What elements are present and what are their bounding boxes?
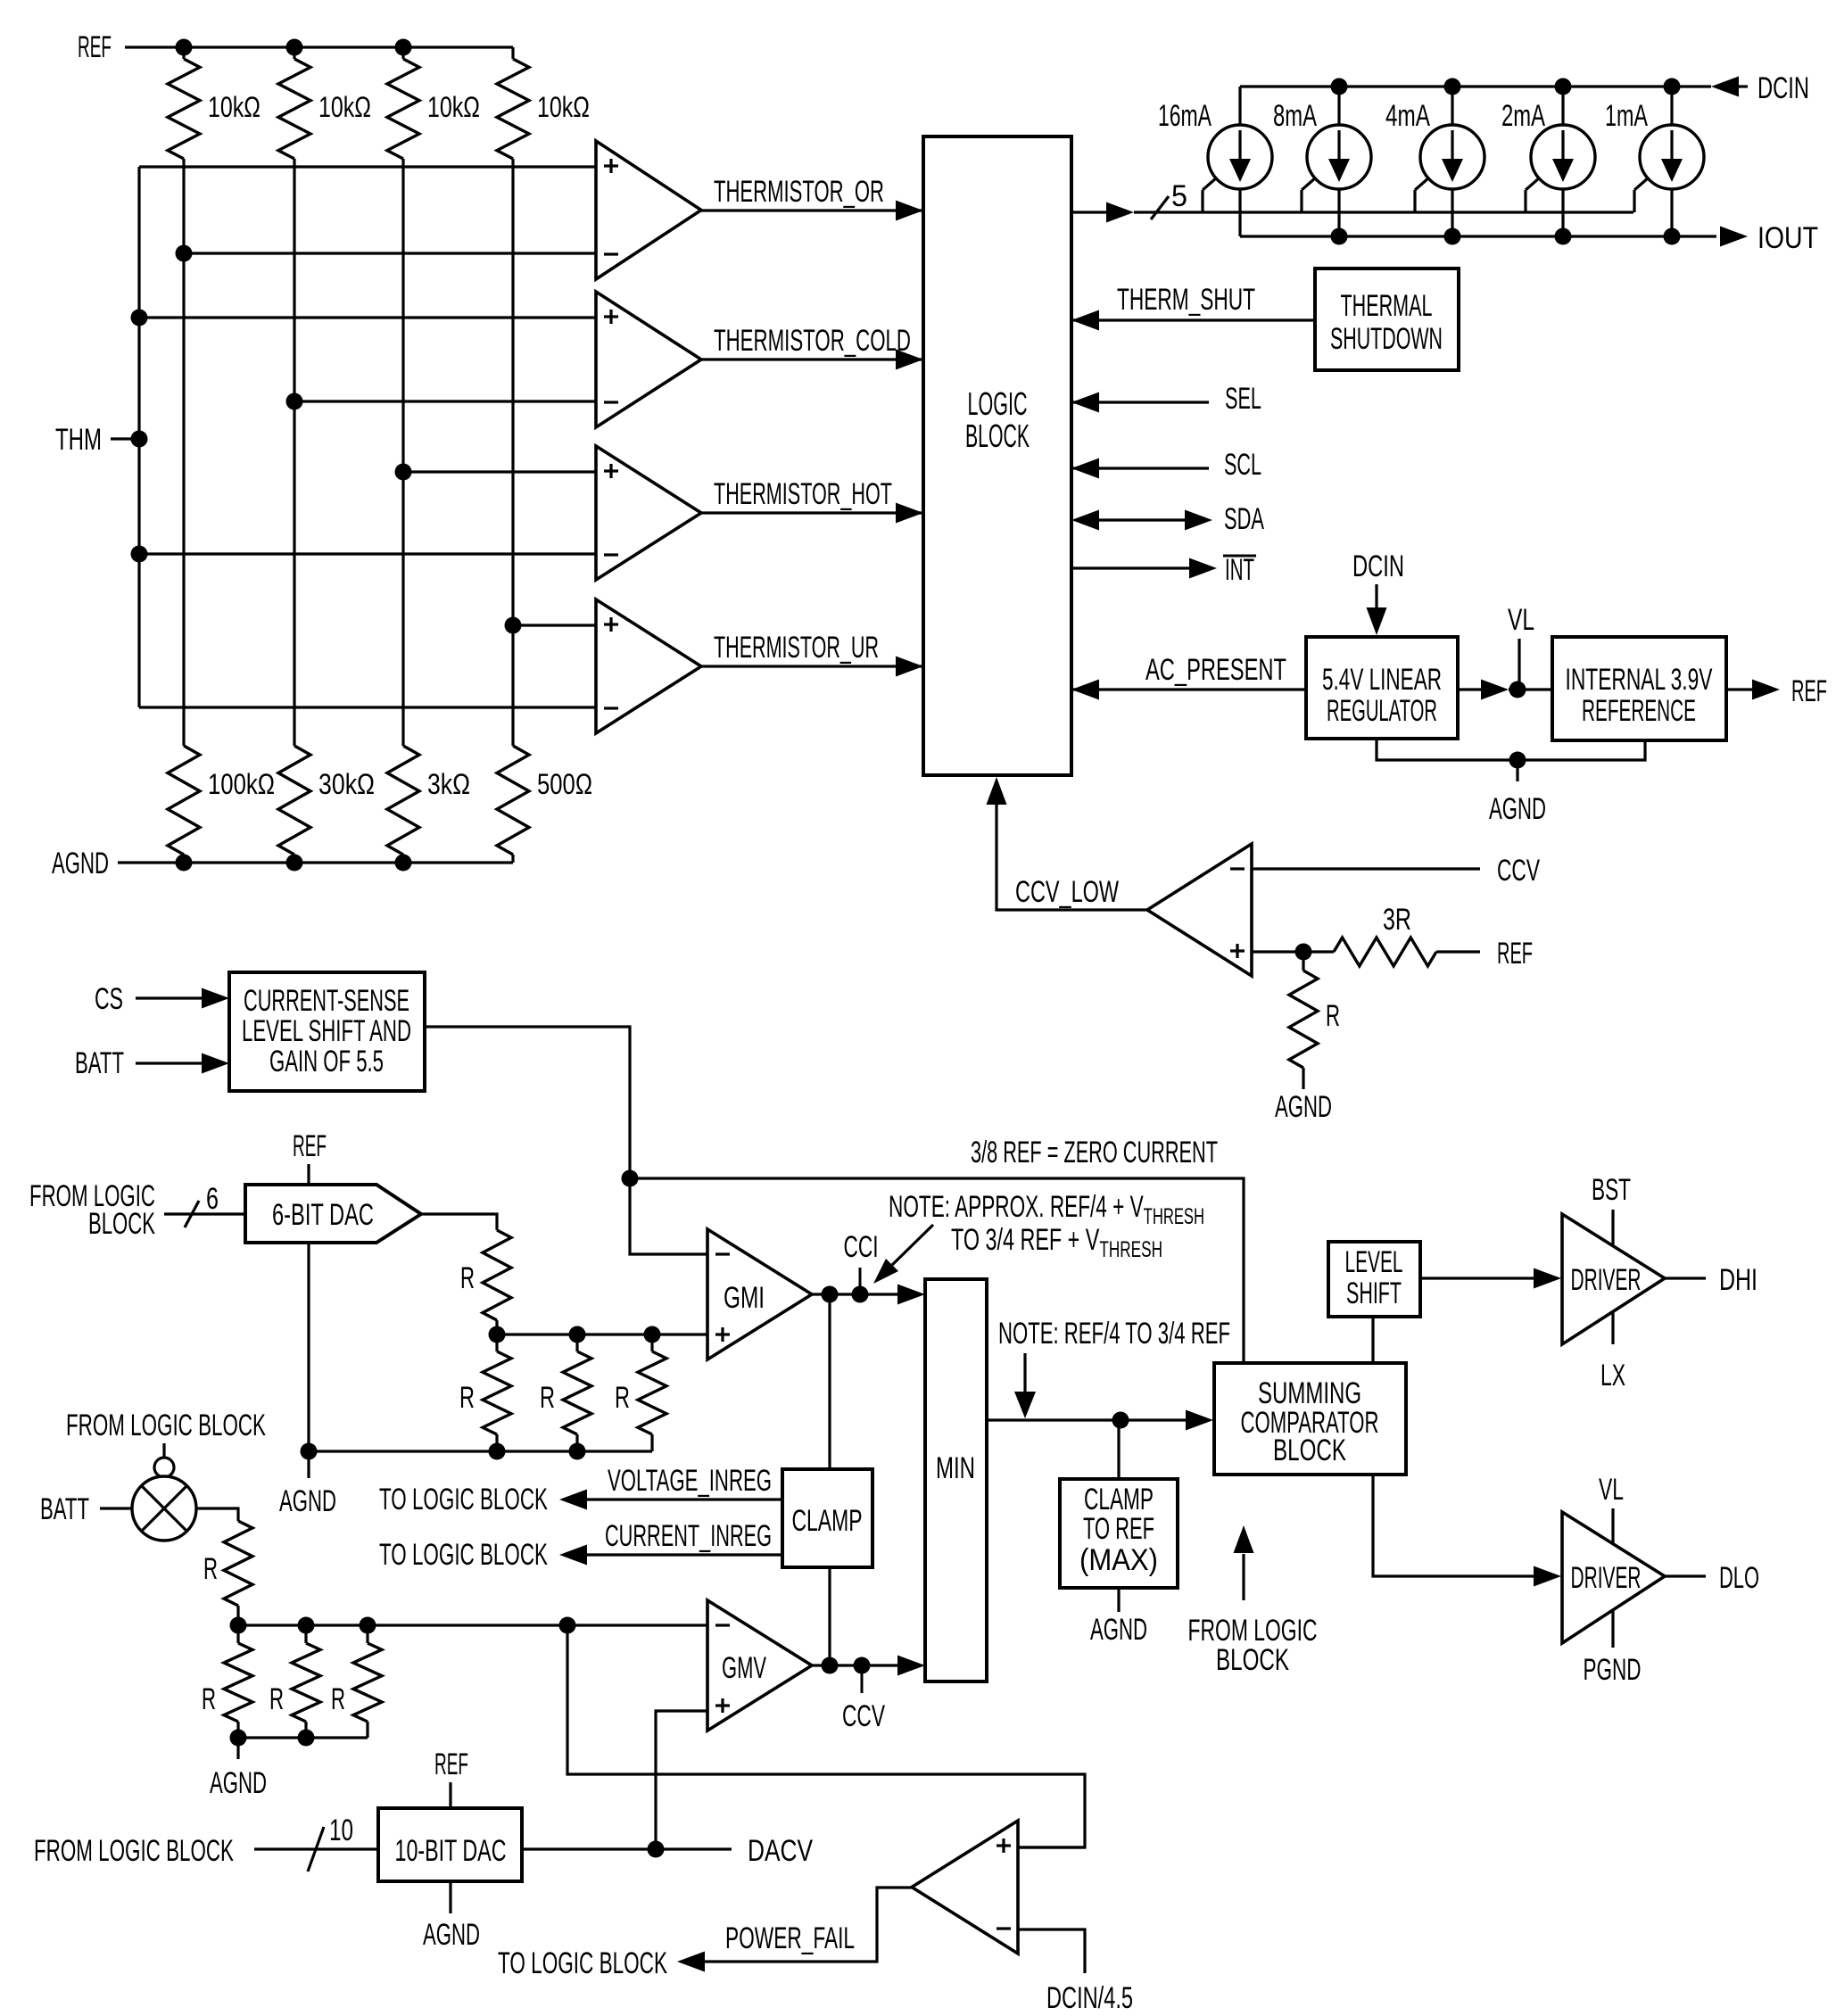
svg-text:VOLTAGE_INREG: VOLTAGE_INREG — [608, 1464, 772, 1498]
node CCI with tick label — [844, 1230, 879, 1287]
svg-text:3R: 3R — [1383, 903, 1411, 937]
svg-text:SHUTDOWN: SHUTDOWN — [1330, 322, 1443, 356]
wire column 2 vertical — [286, 163, 303, 742]
svg-text:REFERENCE: REFERENCE — [1582, 694, 1696, 728]
wire DACV node with label — [522, 1834, 813, 1868]
wire comp1 - row — [184, 252, 596, 254]
wire column 3 vertical — [395, 163, 412, 742]
svg-text:30kΩ: 30kΩ — [318, 768, 375, 800]
svg-text:REF: REF — [78, 30, 112, 64]
svg-text:DRIVER: DRIVER — [1571, 1561, 1642, 1595]
wire CCV_LOW output to logic block with up arrow and label — [987, 777, 1148, 910]
svg-text:10-BIT DAC: 10-BIT DAC — [395, 1834, 507, 1868]
wire comp3 + row — [403, 470, 596, 473]
svg-text:CCV: CCV — [1497, 854, 1540, 888]
terminal DCIN with arrow — [1711, 71, 1809, 105]
node AGND (clamp max) — [1090, 1613, 1147, 1647]
svg-text:3kΩ: 3kΩ — [427, 768, 470, 800]
svg-text:REF: REF — [293, 1129, 327, 1163]
svg-text:DHI: DHI — [1719, 1263, 1757, 1297]
wire FROM LOGIC BLOCK input with bus slash 6 — [29, 1179, 245, 1241]
svg-text:VL: VL — [1599, 1473, 1624, 1507]
wire MIN output to summing comparator — [987, 1410, 1213, 1431]
current source 1mA with switch — [1605, 87, 1704, 236]
current source 16mA with switch — [1158, 87, 1272, 236]
svg-text:R: R — [331, 1682, 345, 1716]
regulator block 5.4V — [1306, 637, 1458, 739]
svg-text:THERM_SHUT: THERM_SHUT — [1117, 283, 1255, 317]
svg-text:REF: REF — [1791, 674, 1827, 708]
note REF/4 to 3/4 REF with down arrow — [998, 1317, 1230, 1418]
svg-text:BLOCK: BLOCK — [1216, 1643, 1289, 1677]
wire AGND rail (GMV ladder) — [230, 1730, 368, 1747]
svg-text:DACV: DACV — [748, 1834, 813, 1868]
svg-text:10kΩ: 10kΩ — [537, 91, 590, 123]
wire GMV plus input to DACV node — [656, 1711, 707, 1849]
comparator U5 CCV_LOW — [1147, 844, 1252, 976]
svg-text:100kΩ: 100kΩ — [208, 768, 275, 800]
wire power-fail minus input to DCIN/4.5 — [1018, 1929, 1085, 1973]
svg-text:THERMISTOR_OR: THERMISTOR_OR — [714, 175, 884, 209]
node AGND (GMI ladder) — [279, 1484, 336, 1518]
wire REF output with label — [1726, 674, 1827, 708]
terminal BATT (GMV input) — [40, 1492, 132, 1526]
svg-text:LX: LX — [1600, 1359, 1625, 1392]
resistor R (GMV ladder 2) — [269, 1625, 320, 1738]
resistor 10k&#937; column 4 — [497, 47, 590, 163]
resistor 100kohm column 1 — [168, 742, 275, 863]
svg-text:CURRENT_INREG: CURRENT_INREG — [605, 1519, 772, 1553]
level shift block — [1328, 1242, 1420, 1317]
svg-text:THERMISTOR_COLD: THERMISTOR_COLD — [714, 324, 911, 358]
svg-text:POWER_FAIL: POWER_FAIL — [725, 1921, 855, 1955]
svg-text:R: R — [269, 1682, 284, 1716]
pin VL (driver 2) — [1599, 1473, 1624, 1543]
wire column 4 vertical — [505, 163, 522, 742]
svg-text:LOGIC: LOGIC — [968, 385, 1028, 422]
svg-text:R: R — [202, 1682, 216, 1716]
svg-text:4mA: 4mA — [1385, 99, 1430, 133]
pin BST — [1592, 1173, 1631, 1245]
wire DAC bottom to AGND rail — [307, 1243, 310, 1478]
wire DLO output with label — [1665, 1561, 1759, 1595]
wire comp2 - row — [294, 400, 596, 402]
node AGND (GMV ladder) — [210, 1766, 267, 1800]
wire regulator AGND net — [1377, 739, 1645, 781]
svg-text:5: 5 — [1171, 179, 1187, 213]
indicator lamp (BATT switch) — [132, 1458, 196, 1541]
svg-text:CS: CS — [95, 982, 123, 1016]
svg-text:AC_PRESENT: AC_PRESENT — [1145, 653, 1286, 687]
driver 2 (low side) — [1562, 1512, 1665, 1643]
pin LX — [1600, 1312, 1625, 1392]
wire GMV output to MIN with junction dots — [812, 1656, 925, 1676]
svg-text:6-BIT DAC: 6-BIT DAC — [272, 1198, 374, 1232]
resistor R (GMI ladder 3) — [615, 1334, 666, 1451]
svg-text:GAIN OF 5.5: GAIN OF 5.5 — [269, 1045, 384, 1078]
svg-text:LEVEL SHIFT AND: LEVEL SHIFT AND — [242, 1014, 411, 1048]
svg-text:DCIN/4.5: DCIN/4.5 — [1046, 1981, 1133, 2015]
svg-text:DCIN: DCIN — [1352, 549, 1404, 583]
current-sense block — [229, 972, 425, 1091]
resistor R (GMI ladder 1) — [459, 1334, 511, 1451]
svg-text:1mA: 1mA — [1605, 99, 1648, 133]
terminal DCIN into regulator — [1352, 549, 1404, 635]
resistor 500ohm column 4 — [497, 742, 592, 863]
resistor 30kohm column 2 — [278, 742, 375, 863]
wire THERMISTOR_OR with label — [701, 175, 923, 221]
svg-text:SEL: SEL — [1225, 382, 1261, 416]
svg-text:(MAX): (MAX) — [1079, 1543, 1158, 1577]
svg-text:NOTE: REF/4 TO 3/4 REF: NOTE: REF/4 TO 3/4 REF — [998, 1317, 1230, 1351]
wire comp1 + row — [139, 165, 596, 168]
MIN block — [925, 1279, 987, 1681]
svg-text:CCV_LOW: CCV_LOW — [1015, 875, 1119, 909]
svg-text:SCL: SCL — [1224, 448, 1261, 482]
svg-text:REF: REF — [1497, 937, 1533, 971]
resistor 10k&#937; column 3 — [387, 47, 480, 163]
svg-text:PGND: PGND — [1584, 1653, 1642, 1687]
svg-text:IOUT: IOUT — [1757, 221, 1818, 255]
wire comp3 - row — [139, 552, 596, 555]
wire comp4 - row — [139, 706, 596, 708]
op-amp GMV — [707, 1600, 812, 1731]
wire REF rail — [176, 39, 514, 56]
node AGND (CCV_LOW divider) — [1275, 1090, 1332, 1124]
terminal IOUT with arrow — [1720, 221, 1818, 255]
comparator U4 (thermistor underrange) — [596, 599, 701, 733]
wire THERMISTOR_COLD with label — [701, 324, 923, 370]
wire VOLTAGE_INREG to logic block with labels — [379, 1464, 782, 1516]
current source 4mA with switch — [1385, 87, 1485, 236]
wire level shift to summing comparator — [1371, 1317, 1374, 1363]
wire GMI plus rail — [489, 1326, 708, 1343]
node AGND (regulator) — [1489, 792, 1546, 826]
svg-text:TO REF: TO REF — [1083, 1512, 1154, 1546]
svg-text:10: 10 — [329, 1814, 353, 1847]
terminal BATT with arrow — [75, 1046, 229, 1080]
wire comp2 + row — [139, 316, 596, 318]
wire clamp top to CCI node — [828, 1294, 831, 1469]
resistor R (GMI ladder 2) — [540, 1334, 591, 1451]
wire GMI output to MIN with junction dots — [812, 1285, 925, 1305]
svg-text:500Ω: 500Ω — [537, 768, 592, 800]
resistor 3R with label — [1334, 903, 1436, 966]
svg-text:5.4V LINEAR: 5.4V LINEAR — [1322, 663, 1442, 697]
current source 8mA with switch — [1273, 87, 1371, 236]
svg-text:16mA: 16mA — [1158, 99, 1212, 133]
wire level shift output to driver — [1420, 1268, 1561, 1289]
svg-text:LEVEL: LEVEL — [1345, 1245, 1403, 1279]
node DCIN/4.5 — [1046, 1981, 1133, 2015]
resistor R (GMV ladder 3) — [331, 1625, 382, 1738]
svg-text:CLAMP: CLAMP — [792, 1504, 863, 1538]
comparator U3 (thermistor hot) — [596, 446, 701, 580]
svg-text:BST: BST — [1592, 1173, 1631, 1207]
wire clamp-max AGND — [1117, 1588, 1120, 1612]
svg-text:R: R — [460, 1261, 475, 1295]
svg-text:8mA: 8mA — [1273, 99, 1317, 133]
wire 3/8 REF to summing comparator with label — [630, 1136, 1244, 1363]
svg-text:THERMISTOR_HOT: THERMISTOR_HOT — [714, 477, 892, 511]
wire AGND rail (GMI ladder) — [301, 1443, 653, 1460]
wire SCL with label — [1071, 448, 1261, 482]
svg-text:TO LOGIC BLOCK: TO LOGIC BLOCK — [379, 1538, 548, 1572]
svg-text:MIN: MIN — [936, 1451, 975, 1485]
wire GMV minus rail — [230, 1617, 708, 1634]
svg-text:R: R — [540, 1381, 555, 1415]
wire SEL with label — [1071, 382, 1261, 416]
resistor R (GMV ladder 1) — [202, 1625, 252, 1738]
node THM — [55, 423, 139, 457]
svg-text:6: 6 — [206, 1182, 219, 1216]
svg-text:3/8 REF = ZERO CURRENT: 3/8 REF = ZERO CURRENT — [971, 1136, 1218, 1169]
node AGND (10-bit DAC) — [423, 1918, 480, 1952]
svg-text:BATT: BATT — [40, 1492, 89, 1526]
wire DHI output with label — [1665, 1263, 1757, 1297]
comparator U1 (thermistor overrange) — [596, 141, 701, 279]
svg-text:AGND: AGND — [1489, 792, 1546, 826]
svg-text:AGND: AGND — [279, 1484, 336, 1518]
reference block internal 3.9V — [1552, 637, 1726, 740]
svg-text:FROM LOGIC BLOCK: FROM LOGIC BLOCK — [66, 1409, 266, 1442]
10-bit DAC block — [378, 1808, 522, 1881]
svg-text:2mA: 2mA — [1501, 99, 1545, 133]
svg-text:DRIVER: DRIVER — [1571, 1263, 1642, 1297]
wire battery sense to power-fail comparator — [567, 1625, 1085, 1847]
wire clamp bottom to CCV node — [828, 1567, 831, 1665]
wire IOUT rail — [1240, 228, 1716, 245]
svg-text:GMV: GMV — [722, 1651, 766, 1685]
node CCV with tick label — [842, 1665, 885, 1733]
current source 2mA with switch — [1501, 87, 1595, 236]
svg-text:DLO: DLO — [1719, 1561, 1759, 1595]
resistor R (CCV_LOW divider) — [1289, 952, 1340, 1089]
svg-text:R: R — [1326, 999, 1340, 1033]
wire FROM LOGIC BLOCK input with bus slash 10 — [34, 1814, 378, 1871]
svg-text:THERMISTOR_UR: THERMISTOR_UR — [714, 631, 879, 665]
summing comparator block — [1214, 1363, 1406, 1475]
svg-text:CCI: CCI — [844, 1230, 879, 1264]
comparator U2 (thermistor cold) — [596, 292, 701, 427]
resistor 10k&#937; column 2 — [278, 47, 371, 163]
wire summing comparator to low-side driver — [1373, 1475, 1561, 1587]
svg-text:REGULATOR: REGULATOR — [1327, 694, 1437, 728]
svg-text:CURRENT-SENSE: CURRENT-SENSE — [244, 984, 409, 1018]
wire CURRENT_INREG to logic block with labels — [379, 1519, 782, 1572]
svg-text:10kΩ: 10kΩ — [427, 91, 480, 123]
wire THERM_SHUT with label — [1071, 283, 1316, 331]
svg-text:AGND: AGND — [52, 847, 109, 880]
clamp block — [782, 1469, 873, 1567]
wire regulator output to VL node — [1458, 680, 1552, 700]
svg-text:REF: REF — [434, 1747, 468, 1781]
wire DCIN rail — [1240, 78, 1711, 95]
wire SDA bidirectional with label — [1071, 502, 1264, 536]
svg-text:FROM LOGIC BLOCK: FROM LOGIC BLOCK — [34, 1834, 234, 1868]
wire power-fail plus input — [1018, 1846, 1085, 1848]
svg-text:R: R — [203, 1552, 218, 1586]
wire + input node to 3R — [1252, 944, 1334, 961]
wire AGND stub (GMV ladder) — [236, 1738, 239, 1759]
svg-text:BLOCK: BLOCK — [88, 1207, 155, 1241]
wire 3R to REF with label — [1436, 937, 1533, 971]
svg-text:INT: INT — [1225, 553, 1254, 587]
svg-text:CCV: CCV — [842, 1699, 885, 1733]
wire comp4 + row — [513, 624, 596, 626]
op-amp GMI — [707, 1229, 812, 1359]
clamp to REF max block — [1060, 1420, 1178, 1588]
logic block — [923, 136, 1071, 775]
svg-text:BLOCK: BLOCK — [965, 417, 1030, 454]
svg-text:R: R — [615, 1381, 630, 1415]
svg-text:10kΩ: 10kΩ — [318, 91, 371, 123]
svg-text:SDA: SDA — [1224, 502, 1264, 536]
svg-text:10kΩ: 10kΩ — [208, 91, 261, 123]
wire THM bus vertical — [131, 167, 148, 707]
wire DAC AGND stub — [449, 1881, 451, 1913]
node REF (6-bit DAC) — [293, 1129, 327, 1185]
svg-text:THM: THM — [55, 423, 102, 457]
thermal shutdown block — [1315, 269, 1459, 370]
svg-text:VL: VL — [1508, 603, 1534, 637]
node REF (10-bit DAC) — [434, 1747, 468, 1808]
wire CCV input with label — [1252, 854, 1540, 888]
wire column 1 vertical — [176, 163, 193, 742]
wire INT output with overline label — [1071, 553, 1256, 587]
svg-text:SHIFT: SHIFT — [1346, 1277, 1402, 1310]
driver 1 (high side) — [1562, 1214, 1665, 1344]
node AGND (thermistor network) — [52, 847, 513, 880]
svg-text:AGND: AGND — [1275, 1090, 1332, 1124]
svg-text:TO LOGIC BLOCK: TO LOGIC BLOCK — [379, 1483, 548, 1516]
wire POWER_FAIL output to logic block — [498, 1888, 912, 1980]
node REF (thermistor divider supply) — [78, 30, 184, 64]
terminal CS with arrow — [95, 982, 229, 1016]
pin PGND — [1584, 1610, 1642, 1687]
node VL — [1508, 603, 1534, 690]
resistor R (DAC ladder top) — [460, 1230, 511, 1334]
svg-text:AGND: AGND — [1090, 1613, 1147, 1647]
wire current-sense output to GMI minus — [425, 1027, 707, 1254]
wire THERMISTOR_UR with label — [701, 631, 923, 677]
wire FROM LOGIC BLOCK up arrow into summing comparator — [1188, 1525, 1318, 1677]
wire FROM LOGIC BLOCK to lamp — [66, 1409, 266, 1458]
resistor R (BATT series) — [196, 1508, 252, 1625]
comparator U6 power fail — [912, 1821, 1018, 1954]
resistor 3kohm column 3 — [387, 742, 470, 863]
svg-text:AGND: AGND — [423, 1918, 480, 1952]
note approx REF/4 with arrow — [873, 1190, 1204, 1284]
svg-text:TO LOGIC BLOCK: TO LOGIC BLOCK — [498, 1946, 667, 1980]
svg-text:THERMAL: THERMAL — [1341, 289, 1433, 323]
6-bit DAC block — [245, 1185, 421, 1243]
wire THERMISTOR_HOT with label — [701, 477, 923, 524]
svg-text:GMI: GMI — [724, 1281, 765, 1315]
svg-text:AGND: AGND — [210, 1766, 267, 1800]
svg-text:BATT: BATT — [75, 1046, 124, 1080]
wire DAC output to ladder — [421, 1214, 497, 1230]
svg-text:INTERNAL 3.9V: INTERNAL 3.9V — [1566, 663, 1713, 697]
svg-text:R: R — [459, 1381, 475, 1415]
wire AC_PRESENT with label — [1071, 653, 1306, 700]
resistor 10k&#937; column 1 — [168, 47, 261, 163]
svg-text:BLOCK: BLOCK — [1273, 1434, 1346, 1467]
wire 5-bit bus to current sources with slash and label 5 — [1071, 179, 1633, 223]
svg-text:DCIN: DCIN — [1757, 71, 1809, 105]
